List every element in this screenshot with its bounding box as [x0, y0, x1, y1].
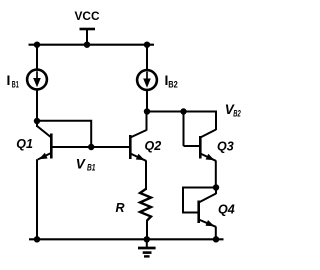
wire Q3 emitter to Q4 node — [215, 160, 217, 187]
junction dot top-left — [34, 42, 40, 48]
transistor Q1 — [37, 126, 51, 160]
svg-text:B2: B2 — [168, 80, 178, 90]
wire top rail — [29, 44, 155, 46]
VCC power bar symbol — [80, 28, 96, 31]
wire IB2 to collector node — [146, 90, 148, 112]
wire Q4 emitter to ground rail — [215, 226, 217, 239]
current source IB1 — [27, 70, 47, 90]
junction dot top-right — [144, 42, 150, 48]
wire resistor to ground rail — [146, 220, 148, 239]
node Q2 collector junction dot — [144, 108, 150, 114]
wire Q1 emitter down to ground rail — [36, 159, 38, 239]
wire Q1 diode connection (collector to base) — [37, 121, 91, 147]
wire rail to IB2 — [146, 45, 148, 71]
transistor Q2 — [130, 130, 146, 161]
wire Q2 emitter to resistor — [145, 160, 147, 190]
svg-text:Q1: Q1 — [16, 137, 33, 151]
svg-text:B1: B1 — [12, 80, 19, 90]
node Q4 collector-base tie dot — [213, 184, 219, 190]
junction dot VB2 — [180, 108, 186, 114]
svg-text:B2: B2 — [233, 109, 241, 120]
wire Q2 collector — [146, 112, 148, 131]
wire node to VB2 branch — [147, 112, 216, 131]
current source IB2 — [137, 70, 157, 90]
svg-text:Q2: Q2 — [145, 139, 162, 153]
svg-text:VCC: VCC — [75, 9, 100, 23]
wire Q3 base lead — [184, 145, 201, 147]
svg-text:R: R — [116, 201, 125, 215]
svg-text:Q3: Q3 — [217, 140, 234, 154]
wire VCC stub — [86, 29, 88, 45]
wire Q4 diode connection (collector to base) — [183, 188, 216, 213]
svg-text:B1: B1 — [87, 163, 96, 174]
junction dot bottom-right — [213, 236, 219, 242]
wire rail to IB1 — [36, 45, 38, 70]
svg-text:I: I — [7, 72, 11, 88]
junction dot on VB1 line — [88, 144, 94, 150]
resistor R — [140, 189, 151, 221]
junction dot bottom-left — [34, 236, 40, 242]
junction dot bottom-middle — [144, 236, 150, 242]
wire Q3 base tie (VB2 down to base) — [183, 112, 185, 147]
wire IB1 to Q1 collector node — [36, 89, 38, 127]
transistor Q3 — [200, 130, 216, 161]
svg-text:V: V — [76, 157, 86, 172]
junction dot VCC — [84, 42, 90, 48]
wire bottom ground rail — [29, 238, 224, 240]
wire node VB1 (Q1 base to Q2 base) — [51, 146, 129, 148]
node Q1 collector-base tie dot — [34, 118, 40, 124]
ground symbol — [138, 239, 156, 256]
transistor Q4 — [199, 188, 216, 227]
svg-text:Q4: Q4 — [218, 203, 235, 217]
